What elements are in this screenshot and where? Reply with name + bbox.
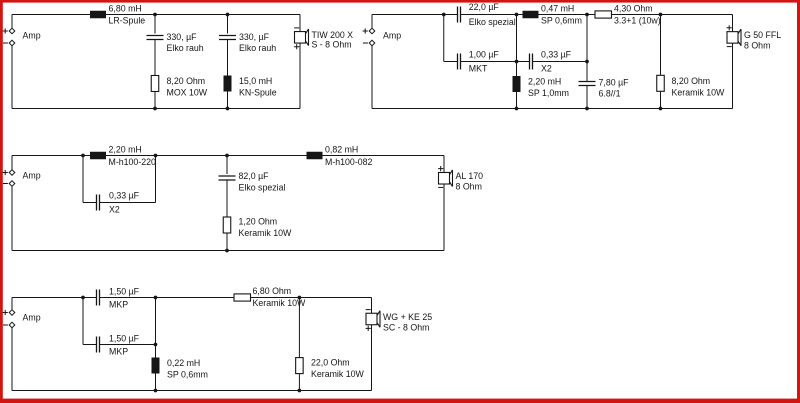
- LS1 TIW 200 X S + pin: [294, 44, 299, 49]
- node circuit2 J2: [515, 13, 519, 17]
- svg-text:KN-Spule: KN-Spule: [239, 88, 277, 98]
- terminal Amp4 -: [9, 322, 15, 328]
- wire J3 down to C8: [226, 156, 228, 175]
- wire circuit3 top rail left: [12, 155, 83, 157]
- svg-text:X2: X2: [541, 64, 552, 74]
- wire J2 to R5: [156, 297, 235, 299]
- LS2 G 50 FFL + pin: [727, 25, 732, 30]
- wire circuit2 top rail left: [372, 14, 444, 16]
- wire lower cap branch left down: [82, 298, 84, 345]
- wire J2 to J3: [156, 155, 228, 157]
- wire circuit2 left from + terminal up: [371, 15, 373, 29]
- Amp3 plus sign: [3, 170, 8, 175]
- wire J6 down to R3: [660, 15, 662, 76]
- wire L7 to bottom rail: [155, 374, 157, 391]
- wire circuit4 bottom rail: [12, 390, 372, 392]
- wire C5 to J5: [533, 61, 588, 63]
- svg-text:0,82 mH: 0,82 mH: [325, 144, 358, 154]
- svg-text:6,80 mH: 6,80 mH: [109, 4, 142, 14]
- wire parallel cap branch left down: [82, 156, 84, 203]
- resistor R3 8,20 Ohm Keramik 10W: [657, 75, 665, 91]
- wire R2 to J6: [612, 14, 661, 16]
- node circuit4 J4: [298, 296, 302, 300]
- wire J2 to L3: [517, 14, 523, 16]
- wire J4 to top right corner: [299, 297, 371, 299]
- svg-text:Amp: Amp: [383, 31, 401, 41]
- wire C4 to J3: [461, 61, 517, 63]
- wire R5 to J4: [251, 297, 300, 299]
- wire C6 to bottom rail: [586, 86, 588, 109]
- svg-text:1,50 µF: 1,50 µF: [109, 286, 140, 296]
- capacitor C7 0,33 uF X2: [97, 195, 100, 211]
- wire circuit2 left from - terminal down: [371, 46, 373, 109]
- wire branch A lower: [154, 92, 156, 109]
- inductor L1 6,80 mH LR-Spule: [90, 11, 106, 19]
- wire L5 to J2: [106, 155, 156, 157]
- wire circuit2 bottom rail: [372, 108, 733, 110]
- inductor L2 15,0 mH KN-Spule: [224, 76, 232, 92]
- terminal Amp4 +: [9, 310, 15, 316]
- Amp3 minus sign: [3, 183, 8, 185]
- wire J3 down to L7: [155, 345, 157, 358]
- svg-text:6,80 Ohm: 6,80 Ohm: [253, 286, 292, 296]
- wire J2 down to J3: [155, 298, 157, 345]
- svg-text:1,50 µF: 1,50 µF: [109, 333, 140, 343]
- LS3 AL 170 + pin: [438, 166, 443, 171]
- svg-text:82,0 µF: 82,0 µF: [239, 171, 270, 181]
- svg-text:SP 0,6mm: SP 0,6mm: [167, 369, 208, 379]
- frame border top: [0, 0, 800, 3]
- svg-text:1,20 Ohm: 1,20 Ohm: [239, 217, 278, 227]
- wire J4 down to J5: [586, 15, 588, 62]
- capacitor C6 7,80 uF 6.8//1: [579, 82, 596, 86]
- svg-text:1,00 µF: 1,00 µF: [469, 49, 500, 59]
- wire circuit4 left from + terminal up: [11, 298, 13, 310]
- Amp2 minus sign: [363, 42, 368, 44]
- svg-text:0,33 µF: 0,33 µF: [541, 49, 572, 59]
- node circuit4 J2: [154, 296, 158, 300]
- Amp4 plus sign: [3, 310, 8, 315]
- svg-text:Amp: Amp: [23, 171, 41, 181]
- wire J4 down to R6: [298, 298, 300, 358]
- wire J6 to top right: [661, 14, 733, 16]
- svg-text:X2: X2: [109, 204, 120, 214]
- wire R4 to bottom rail: [226, 233, 228, 251]
- terminal Amp3 -: [9, 181, 15, 187]
- wire R3 to bottom rail: [660, 91, 662, 108]
- svg-text:Elko rauh: Elko rauh: [239, 43, 276, 53]
- node circuit1 top A: [153, 13, 157, 17]
- svg-text:7,80 µF: 7,80 µF: [599, 77, 630, 87]
- wire circuit1 right lower: [299, 43, 301, 108]
- wire lower cap branch to C10: [83, 344, 97, 346]
- wire circuit1 left from + terminal up: [11, 15, 13, 29]
- resistor R4 1,20 Ohm Keramik 10W: [223, 217, 231, 233]
- wire circuit1 top rail: [12, 14, 300, 16]
- svg-text:SP 0,6mm: SP 0,6mm: [541, 16, 582, 26]
- capacitor C3 22,0 uF Elko spezial: [458, 7, 461, 23]
- inductor L4 2,20 mH SP 1,0mm: [513, 76, 521, 92]
- svg-text:2,20 mH: 2,20 mH: [109, 144, 142, 154]
- capacitor C5 0,33 uF X2: [530, 54, 533, 70]
- LS1 TIW 200 X S - pin: [294, 27, 299, 29]
- svg-text:15,0 mH: 15,0 mH: [239, 76, 272, 86]
- wire circuit1 right upper: [299, 15, 301, 32]
- svg-text:AL 170: AL 170: [456, 171, 484, 181]
- capacitor C2 330 uF Elko rauh: [219, 36, 236, 40]
- svg-text:3.3+1 (10w): 3.3+1 (10w): [614, 16, 661, 26]
- svg-text:Keramik 10W: Keramik 10W: [239, 228, 292, 238]
- resistor R6 22,0 Ohm Keramik 10W: [296, 358, 304, 374]
- resistor R2 4,30 Ohm 3.3+1: [595, 11, 612, 18]
- wire parallel cap branch right up: [155, 156, 157, 203]
- node circuit3 J1: [81, 154, 85, 158]
- inductor L5 2,20 mH M-h100-220: [90, 152, 106, 160]
- wire circuit4 right upper: [371, 298, 373, 314]
- Amp1 minus sign: [3, 42, 8, 44]
- wire J1 down to lower branch: [443, 15, 445, 62]
- terminal Amp2 +: [369, 28, 375, 34]
- node circuit2 bottom J3b: [515, 107, 519, 111]
- inductor L7 0,22 mH SP 0,6mm: [152, 358, 160, 374]
- wire circuit4 top rail left: [12, 297, 83, 299]
- svg-text:8 Ohm: 8 Ohm: [744, 41, 770, 51]
- wire branch B middle: [227, 40, 229, 76]
- speaker LS2 G 50 FFL: [727, 29, 741, 46]
- frame border left: [0, 0, 3, 403]
- capacitor C1 330 uF Elko rauh: [147, 36, 164, 40]
- wire branch A middle: [154, 40, 156, 76]
- svg-text:2,20 mH: 2,20 mH: [528, 76, 561, 86]
- frame border right: [797, 0, 800, 403]
- node circuit3 J3: [225, 154, 229, 158]
- svg-text:4,30 Ohm: 4,30 Ohm: [614, 4, 653, 14]
- svg-text:0,47 mH: 0,47 mH: [541, 4, 574, 14]
- node circuit1 top B: [226, 13, 230, 17]
- svg-text:Keramik 10W: Keramik 10W: [311, 369, 364, 379]
- wire circuit1 bottom rail: [12, 108, 300, 110]
- svg-text:S - 8 Ohm: S - 8 Ohm: [312, 39, 352, 49]
- inductor L6 0,82 mH M-h100-082: [307, 152, 323, 160]
- wire circuit3 left from + terminal up: [11, 156, 13, 170]
- svg-text:330, µF: 330, µF: [167, 32, 198, 42]
- node circuit3 J2: [154, 154, 158, 158]
- wire R6 to bottom rail: [298, 374, 300, 391]
- LS4 WG + KE 25 SC - pin: [366, 309, 371, 311]
- node circuit1 bottom A: [153, 107, 157, 111]
- wire C8 to R4: [226, 180, 228, 217]
- wire J1 to L5: [83, 155, 90, 157]
- terminal Amp1 +: [9, 28, 15, 34]
- node circuit3 bottom J3b: [225, 249, 229, 253]
- speaker LS4 WG + KE 25 SC: [366, 311, 380, 328]
- capacitor C4 1,00 uF MKT: [458, 54, 461, 70]
- node circuit4 J3: [154, 343, 158, 347]
- wire J3 to C5: [517, 61, 530, 63]
- capacitor C8 82,0 uF Elko spezial: [219, 176, 236, 180]
- svg-text:Amp: Amp: [23, 31, 41, 41]
- wire branch B upper: [227, 15, 229, 34]
- svg-text:Elko spezial: Elko spezial: [469, 17, 516, 27]
- svg-text:22,0 µF: 22,0 µF: [469, 2, 500, 12]
- svg-text:M-h100-082: M-h100-082: [325, 157, 373, 167]
- svg-text:Elko rauh: Elko rauh: [167, 43, 204, 53]
- Amp1 plus sign: [3, 28, 8, 33]
- svg-text:8 Ohm: 8 Ohm: [456, 182, 482, 192]
- wire J3 to L6: [227, 155, 307, 157]
- wire C9 to J2: [100, 297, 156, 299]
- capacitor C9 1,50 uF MKP: [97, 290, 100, 306]
- terminal Amp1 -: [9, 40, 15, 46]
- svg-text:22,0 Ohm: 22,0 Ohm: [311, 358, 350, 368]
- wire circuit3 right lower: [443, 184, 445, 251]
- wire circuit1 left from - terminal down: [11, 46, 13, 109]
- wire parallel cap branch bottom right: [100, 202, 156, 204]
- wire circuit4 right lower: [371, 325, 373, 391]
- wire J2 to J3 vertical tie: [516, 15, 518, 62]
- svg-text:Elko spezial: Elko spezial: [239, 183, 286, 193]
- svg-text:8,20 Ohm: 8,20 Ohm: [167, 76, 206, 86]
- svg-text:MOX 10W: MOX 10W: [167, 88, 208, 98]
- svg-text:6.8//1: 6.8//1: [599, 88, 621, 98]
- svg-text:MKP: MKP: [109, 346, 128, 356]
- wire lower branch to C4: [444, 61, 458, 63]
- speaker LS1 TIW 200 X S: [295, 29, 309, 46]
- svg-text:MKP: MKP: [109, 299, 128, 309]
- svg-text:8,20 Ohm: 8,20 Ohm: [672, 76, 711, 86]
- wire J4 to R2: [587, 14, 595, 16]
- node circuit2 J5: [585, 60, 589, 64]
- capacitor C10 1,50 uF MKP: [97, 337, 100, 353]
- LS4 WG + KE 25 SC + pin: [366, 326, 371, 331]
- inductor L3 0,47 mH SP 0,6mm: [523, 11, 539, 19]
- svg-text:WG + KE 25: WG + KE 25: [383, 312, 432, 322]
- wire branch B lower: [227, 92, 229, 109]
- svg-text:0,22 mH: 0,22 mH: [167, 358, 200, 368]
- svg-text:Keramik 10W: Keramik 10W: [253, 298, 306, 308]
- wire L4 to bottom rail: [516, 92, 518, 109]
- svg-text:SP 1,0mm: SP 1,0mm: [528, 88, 569, 98]
- node circuit2 bottom J6b: [659, 107, 663, 111]
- wire C3 to J2: [461, 14, 517, 16]
- wire L3 to J4: [539, 14, 588, 16]
- svg-text:LR-Spule: LR-Spule: [109, 16, 146, 26]
- terminal Amp2 -: [369, 40, 375, 46]
- Amp4 minus sign: [3, 324, 8, 326]
- node circuit4 bottom J3b: [154, 389, 158, 393]
- wire circuit2 right upper: [732, 15, 734, 32]
- svg-text:SC - 8 Ohm: SC - 8 Ohm: [383, 322, 429, 332]
- wire circuit4 left from - terminal down: [11, 328, 13, 391]
- wire J3 down to L4: [516, 62, 518, 77]
- wire L6 to right: [323, 155, 445, 157]
- node circuit2 J3: [515, 60, 519, 64]
- svg-text:M-h100-220: M-h100-220: [109, 157, 157, 167]
- terminal Amp3 +: [9, 170, 15, 176]
- svg-text:330, µF: 330, µF: [239, 32, 270, 42]
- node circuit2 J6: [659, 13, 663, 17]
- svg-text:G 50 FFL: G 50 FFL: [744, 30, 781, 40]
- wire parallel cap branch bottom left: [83, 202, 97, 204]
- wire C10 to J3: [100, 344, 156, 346]
- wire J1 to C3: [444, 14, 458, 16]
- wire branch A upper: [154, 15, 156, 34]
- wire circuit3 bottom rail: [12, 250, 444, 252]
- resistor R5 6,80 Ohm Keramik 10W: [234, 294, 251, 301]
- node circuit4 J1: [81, 296, 85, 300]
- node circuit2 J4: [585, 13, 589, 17]
- wire circuit3 left from - terminal down: [11, 186, 13, 250]
- Amp2 plus sign: [363, 28, 368, 33]
- wire J5 down to C6: [586, 62, 588, 82]
- speaker LS3 AL 170: [439, 170, 453, 187]
- wire circuit2 right lower: [732, 43, 734, 108]
- node circuit2 bottom J5b: [585, 107, 589, 111]
- svg-text:Keramik 10W: Keramik 10W: [672, 88, 725, 98]
- svg-text:0,33 µF: 0,33 µF: [109, 190, 140, 200]
- node circuit1 bottom B: [226, 107, 230, 111]
- frame border bottom: [0, 399, 800, 403]
- node circuit2 J1: [442, 13, 446, 17]
- resistor R1 8,20 Ohm MOX 10W: [151, 76, 159, 92]
- svg-text:Amp: Amp: [23, 313, 41, 323]
- LS2 G 50 FFL - pin: [727, 46, 732, 48]
- LS3 AL 170 - pin: [438, 186, 443, 188]
- node circuit4 bottom J4b: [298, 389, 302, 393]
- wire circuit3 right upper: [443, 156, 445, 173]
- svg-text:MKT: MKT: [469, 64, 488, 74]
- svg-text:TIW 200 X: TIW 200 X: [312, 30, 354, 40]
- wire J1 to C9: [83, 297, 97, 299]
